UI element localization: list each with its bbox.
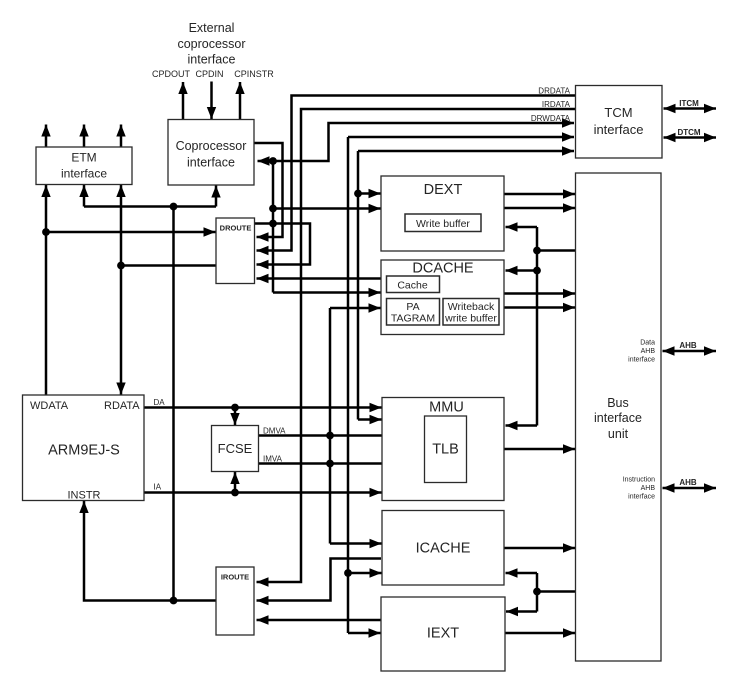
svg-text:interface: interface (187, 156, 235, 170)
wire CPDOUT arrow (182, 82, 185, 119)
wire BIU instruction riser to IEXT (506, 610, 537, 613)
wire DROUTE out to riser310 (255, 224, 311, 265)
wire BIU data riser to MMU (506, 424, 538, 427)
wire BIU instruction riser vertical (536, 573, 539, 612)
wire riser273 vertical (272, 161, 275, 293)
node riser330 IMVA junction (326, 460, 334, 468)
wire into coprocessor bottom (215, 186, 218, 207)
svg-text:TLB: TLB (432, 442, 459, 458)
wire ETM top arrow 3 (120, 125, 123, 148)
wire riser330 vertical (329, 308, 332, 544)
svg-text:AHB: AHB (679, 478, 697, 487)
ICACHE box (382, 511, 504, 586)
wire ICACHE to IROUTE (257, 559, 382, 601)
wire IEXT to BIU (505, 632, 575, 635)
wire ICACHE to BIU (504, 547, 575, 550)
svg-text:Coprocessor: Coprocessor (176, 139, 247, 153)
svg-text:External: External (189, 21, 235, 35)
svg-text:PA: PA (406, 301, 419, 313)
wire ITCM bidirectional (664, 107, 717, 110)
write buffer box (405, 214, 481, 232)
node on DRWDATA at riser x273 (269, 157, 277, 165)
wire DTCM bidirectional (664, 136, 717, 139)
svg-text:DTCM: DTCM (677, 128, 700, 137)
svg-text:interface: interface (628, 494, 655, 501)
node riser273 DEXT branch (269, 205, 277, 213)
wire DCACHE to BIU lower (504, 306, 575, 309)
wire BIU instruction riser to ICACHE (506, 572, 538, 575)
node riser358 DEXT branch (354, 190, 362, 198)
wire BIU data feed plain (537, 249, 576, 252)
wire DCACHE to BIU upper (504, 292, 575, 295)
svg-text:CPDIN: CPDIN (195, 69, 223, 79)
svg-text:AHB: AHB (641, 485, 656, 492)
ETM interface box (36, 147, 132, 185)
wire ETM top arrow 1 (45, 125, 48, 148)
wire DCACHE to DROUTE arrow4 (257, 277, 382, 280)
DCACHE box (381, 260, 504, 335)
wire riser273 to DEXT (273, 207, 381, 210)
wire ETM mid arrow to coprocessor bottom (83, 185, 86, 207)
wire IA: ARM to MMU (144, 491, 382, 494)
svg-text:DCACHE: DCACHE (412, 261, 474, 277)
svg-text:IRDATA: IRDATA (542, 100, 571, 109)
svg-text:AHB: AHB (641, 348, 656, 355)
wire DA to FCSE arrow (234, 408, 237, 426)
coprocessor interface box (168, 120, 254, 186)
wire MMU to BIU (504, 448, 575, 451)
node RDATA branch (117, 262, 125, 270)
svg-text:AHB: AHB (679, 341, 697, 350)
wire riser358 vertical (357, 151, 360, 420)
node BIU data riser junction 2 (533, 267, 541, 275)
wire CPDIN arrow (210, 82, 213, 120)
node riser273 top junction on DROUTE out (269, 220, 277, 228)
wire DRWDATA: coprocessor to TCM (258, 123, 575, 161)
wire DA: ARM to MMU (144, 406, 382, 409)
wire instruction AHB bidirectional (663, 487, 717, 490)
svg-text:CPDOUT: CPDOUT (152, 69, 191, 79)
IROUTE box (216, 567, 254, 635)
svg-text:DA: DA (154, 398, 166, 407)
svg-text:Writeback: Writeback (448, 301, 495, 313)
svg-text:DRDATA: DRDATA (538, 87, 570, 96)
svg-text:FCSE: FCSE (218, 441, 253, 456)
node BIU instruction riser junction (533, 588, 541, 596)
svg-text:DROUTE: DROUTE (220, 224, 252, 233)
wire DEXT to BIU lower (504, 207, 575, 210)
wire DMVA: FCSE to TLB (258, 434, 424, 437)
node INSTR-CPINSTR junction (170, 597, 178, 605)
svg-text:interface: interface (594, 411, 642, 425)
svg-text:IEXT: IEXT (427, 626, 459, 642)
node DA-FCSE junction (231, 404, 239, 412)
svg-text:WDATA: WDATA (30, 400, 69, 412)
wire data AHB bidirectional (663, 350, 717, 353)
wire IEXT to IROUTE (257, 619, 382, 622)
svg-text:ETM: ETM (71, 151, 96, 165)
svg-text:IMVA: IMVA (263, 455, 283, 464)
svg-text:DEXT: DEXT (424, 182, 463, 198)
DROUTE box (216, 218, 255, 284)
svg-text:interface: interface (61, 167, 107, 181)
svg-text:RDATA: RDATA (104, 400, 140, 412)
node WDATA branch (42, 228, 50, 236)
wire riser348 to IEXT (348, 632, 381, 635)
svg-text:ARM9EJ-S: ARM9EJ-S (48, 443, 120, 459)
svg-text:interface: interface (594, 122, 644, 137)
wire BIU data riser to DCACHE (506, 269, 538, 272)
writeback write buffer box (443, 299, 499, 326)
svg-text:interface: interface (188, 53, 236, 67)
wire ETM-coprocessor horizontal (84, 205, 216, 208)
TLB box (425, 416, 467, 483)
wire BIU data riser vertical (536, 227, 539, 426)
TCM interface box (576, 86, 663, 159)
wire BIU instruction feed plain (537, 590, 576, 593)
svg-text:coprocessor: coprocessor (177, 37, 245, 51)
IEXT box (381, 597, 505, 671)
svg-text:TAGRAM: TAGRAM (391, 313, 435, 325)
wire ETM top arrow 2 (83, 125, 86, 148)
svg-text:DMVA: DMVA (263, 427, 286, 436)
wire riser358 to DEXT (358, 192, 381, 195)
wire riser330 to DCACHE PA TAGRAM (330, 307, 381, 310)
wire DRDATA: TCM to DROUTE riser (257, 96, 576, 251)
svg-text:Write buffer: Write buffer (416, 218, 470, 230)
DEXT box (381, 176, 504, 251)
BOXES (23, 86, 663, 672)
PA TAGRAM box (387, 299, 440, 326)
wire IA to FCSE arrow (234, 472, 237, 493)
svg-text:IA: IA (154, 483, 162, 492)
wire WDATA riser: ARM to ETM (45, 185, 48, 395)
wire riser348 to ICACHE (348, 572, 382, 575)
svg-text:Cache: Cache (397, 280, 428, 292)
svg-text:INSTR: INSTR (68, 490, 101, 502)
node BIU data riser junction 1 (533, 247, 541, 255)
svg-text:IROUTE: IROUTE (221, 573, 249, 582)
ARM9EJ-S box (23, 395, 145, 501)
wire BIU data riser to DEXT (506, 226, 538, 229)
wire riser348 to TCM arrow (348, 136, 574, 139)
node riser348 ICACHE branch (344, 569, 352, 577)
svg-text:TCM: TCM (604, 105, 632, 120)
wire IRDATA: TCM to IROUTE riser (257, 109, 576, 582)
wire CPINSTR arrow (239, 82, 242, 119)
wire WDATA to DROUTE (46, 231, 216, 234)
node IA-FCSE junction (231, 489, 239, 497)
cache box (387, 276, 440, 293)
svg-text:Bus: Bus (607, 396, 629, 410)
svg-text:unit: unit (608, 427, 629, 441)
svg-text:Instruction: Instruction (623, 477, 655, 484)
svg-text:CPINSTR: CPINSTR (234, 69, 274, 79)
wire IMVA: FCSE to TLB (258, 462, 424, 465)
wire riser358 to TCM arrow (358, 150, 574, 153)
svg-text:ICACHE: ICACHE (416, 541, 471, 557)
wire INSTR: IROUTE to ARM (84, 501, 216, 601)
FCSE box (212, 426, 259, 472)
wire RDATA riser: ETM to ARM bidirectional (120, 185, 123, 395)
wire riser348 vertical (347, 137, 350, 633)
wire coprocessor to DROUTE arrow1 (254, 143, 283, 237)
svg-text:Data: Data (640, 340, 655, 347)
svg-text:write buffer: write buffer (444, 313, 497, 325)
wire riser273 to DCACHE (273, 291, 381, 294)
wire CPINSTR feed riser (172, 207, 175, 601)
svg-text:MMU: MMU (429, 400, 464, 416)
wire riser358 to MMU (358, 418, 382, 421)
svg-text:DRWDATA: DRWDATA (531, 114, 571, 123)
bus interface unit box (576, 173, 662, 661)
MMU box (382, 398, 504, 501)
wire RDATA to DROUTE plain (121, 264, 216, 267)
svg-text:ITCM: ITCM (679, 99, 699, 108)
wire DEXT to BIU upper (504, 193, 575, 196)
node riser330 DMVA junction (326, 432, 334, 440)
node CPINSTR feed junction (170, 203, 178, 211)
svg-text:interface: interface (628, 357, 655, 364)
wire riser330 to ICACHE (330, 542, 382, 545)
